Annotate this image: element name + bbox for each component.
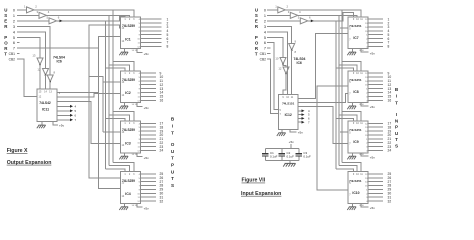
wire A2 tap to IC8 (right) [336, 118, 354, 121]
wire PB4 to inverter U2B [17, 32, 46, 69]
wire bit output 30 [141, 192, 157, 194]
wire mux spare input 7 (right) [298, 121, 302, 123]
wire U8B out to U8C [283, 64, 286, 67]
power +5v IC4 [137, 203, 142, 207]
arrow on buffered PB2 [60, 19, 63, 22]
arrow on buffered PB2 (right) [311, 19, 314, 22]
wire A1 tap to IC2 [109, 65, 130, 71]
wire bit output 1 [141, 18, 162, 20]
wire PB2 to buffer (right) [267, 20, 301, 22]
svg-text:+5v: +5v [144, 106, 150, 110]
svg-text:4: 4 [13, 30, 15, 34]
svg-text:7: 7 [75, 118, 77, 122]
svg-text:1: 1 [124, 173, 126, 176]
svg-text:10: 10 [275, 57, 279, 61]
svg-text:3: 3 [133, 18, 135, 21]
wire bit output 24 [141, 149, 157, 151]
svg-text:1: 1 [24, 5, 26, 9]
svg-text:O: O [4, 40, 8, 45]
svg-text:16: 16 [160, 98, 164, 102]
wire A1 tap to IC7 (right) [339, 65, 357, 71]
capacitor C2 0.1uF [281, 148, 283, 153]
wire bit output 10 [141, 76, 157, 78]
wire net A0 bus drop (right) [341, 10, 343, 162]
svg-text:6: 6 [309, 16, 311, 20]
svg-text:14 15: 14 15 [132, 205, 138, 207]
svg-text:74LS42: 74LS42 [39, 101, 51, 105]
svg-text:I: I [172, 123, 173, 128]
wire bit output 23 [141, 146, 157, 148]
wire PB1 to buffer [17, 14, 39, 16]
wire A2 tap to IC4 [106, 169, 126, 172]
wire A0 tap to IC4 [113, 162, 134, 171]
capacitor C3 0.1uF [298, 148, 300, 153]
svg-text:S: S [171, 183, 174, 188]
svg-text:Figure X: Figure X [7, 148, 28, 154]
wire A1 tap to IC9 (right) [339, 166, 357, 172]
svg-text:1: 1 [124, 18, 126, 21]
wire bit input 29 (right) [368, 188, 383, 190]
capacitor C1 0.1uF [264, 148, 266, 153]
ground IC3 [124, 153, 126, 156]
wire PB5 to inverter U2A [17, 37, 40, 58]
wire CB1 stub (right) [267, 53, 271, 55]
svg-text:9: 9 [353, 122, 355, 125]
wire bit input 21 (right) [368, 138, 383, 140]
svg-text:B: B [171, 116, 175, 121]
wire data tap to IC3 [103, 131, 121, 133]
wire output stub IC7 [340, 27, 348, 29]
wire bit input 18 (right) [368, 126, 383, 128]
buffer U7C [300, 18, 308, 24]
inverter U8A [289, 44, 295, 51]
svg-text:2: 2 [35, 5, 37, 9]
power +5v decoder [53, 122, 58, 125]
svg-text:7: 7 [13, 47, 15, 51]
svg-text:Output Expansion: Output Expansion [7, 160, 52, 166]
wire bit output 22 [141, 142, 157, 144]
svg-text:7: 7 [349, 193, 351, 196]
wire bit input 22 (right) [368, 142, 383, 144]
svg-text:3: 3 [133, 122, 135, 125]
svg-text:5: 5 [298, 16, 300, 20]
wire A0 tap to IC2 [113, 62, 134, 71]
wire bit input 27 (right) [368, 181, 383, 183]
wire net A2 [57, 16, 126, 21]
wire A0 tap to IC8 (right) [342, 112, 361, 121]
svg-text:CB1: CB1 [260, 52, 267, 56]
svg-text:11: 11 [291, 96, 294, 99]
svg-text:74LS251: 74LS251 [349, 179, 362, 183]
wire bit output 2 [141, 22, 162, 24]
wire PB3 to inverter U8A (right) [267, 26, 292, 43]
wire bit output 12 [141, 84, 157, 86]
svg-text:2: 2 [129, 72, 131, 75]
wire net A0 [34, 10, 134, 17]
svg-text:9: 9 [353, 18, 355, 21]
wire bit output 29 [141, 188, 157, 190]
svg-text:IC3: IC3 [125, 141, 131, 145]
multiplexer IC9 74LS251 [348, 121, 368, 153]
ground decoder [41, 122, 43, 126]
power +5v IC7 [361, 49, 369, 52]
ground IC7 [352, 49, 354, 52]
wire bit input 12 (right) [368, 84, 383, 86]
svg-text:S: S [255, 13, 258, 18]
svg-text:24: 24 [160, 149, 164, 153]
wire bit output 11 [141, 80, 157, 82]
svg-text:10: 10 [356, 72, 359, 75]
svg-text:3: 3 [133, 72, 135, 75]
wire PB7 stub (right) [267, 47, 271, 49]
wire net A1 (right) [298, 15, 357, 17]
wire net A1 [47, 15, 130, 17]
svg-text:T: T [171, 156, 174, 161]
svg-text:74LS251: 74LS251 [349, 24, 362, 28]
svg-text:4: 4 [48, 10, 50, 14]
wire A0 tap to IC7 (right) [342, 62, 361, 71]
svg-text:7: 7 [280, 113, 282, 116]
wire bit output 6 [141, 38, 162, 40]
wire bit input 5 (right) [368, 34, 383, 36]
wire bit output 21 [141, 138, 157, 140]
svg-text:2: 2 [129, 122, 131, 125]
svg-text:6: 6 [13, 41, 15, 45]
svg-text:IC12: IC12 [285, 113, 292, 117]
svg-text:8: 8 [388, 45, 390, 49]
svg-text:9: 9 [353, 173, 355, 176]
svg-text:14 15: 14 15 [132, 50, 138, 52]
svg-text:+5v: +5v [298, 131, 304, 135]
svg-text:R: R [255, 24, 259, 29]
svg-text:Input Expansion: Input Expansion [241, 191, 281, 197]
wire net A2 bus drop (right) [335, 21, 337, 169]
buffer U7A [278, 7, 286, 13]
wire bit output 3 [141, 26, 162, 28]
junction dot U2C output [49, 81, 51, 83]
inverter U2A [37, 58, 43, 65]
wire bit input 13 (right) [368, 88, 383, 90]
svg-text:9: 9 [282, 96, 284, 99]
latch IC4 74LS259 [121, 172, 141, 204]
junction dot U8A output [291, 50, 293, 52]
wire bit output 13 [141, 88, 157, 90]
svg-text:0.1uF: 0.1uF [303, 155, 311, 159]
wire bit input 4 (right) [368, 30, 383, 32]
wire bit output 31 [141, 196, 157, 198]
svg-text:3: 3 [133, 173, 135, 176]
wire decoder Y1 to IC2 enable [57, 93, 121, 97]
wire output stub IC9 [340, 131, 348, 133]
svg-text:U: U [255, 8, 258, 13]
wire A2 tap to IC2 [106, 68, 126, 71]
svg-text:IC10: IC10 [352, 191, 359, 195]
junction dot U2B output [45, 75, 47, 77]
wire bit output 14 [141, 92, 157, 94]
wire PB4 to mux pin 10 (right) [267, 32, 288, 95]
wire mux to IC8 enable (right) [298, 93, 348, 102]
svg-text:CB2: CB2 [9, 58, 16, 62]
svg-text:7: 7 [349, 93, 351, 96]
wire bit input 26 (right) [368, 177, 383, 179]
wire bit output 9 [141, 72, 157, 74]
wire bit output 19 [141, 130, 157, 132]
wire bit output 7 [141, 41, 162, 43]
wire bit input 28 (right) [368, 185, 383, 187]
svg-text:5: 5 [13, 36, 15, 40]
svg-text:+5v: +5v [370, 105, 376, 109]
svg-text:8: 8 [295, 50, 297, 54]
buffer U1A [27, 7, 35, 13]
svg-text:I: I [396, 94, 397, 99]
svg-text:5: 5 [280, 109, 282, 112]
svg-text:IC6: IC6 [297, 61, 302, 65]
wire PB6 stub [17, 42, 20, 44]
buffer U1B [39, 12, 47, 18]
svg-text:24: 24 [388, 149, 392, 153]
wire bit output 15 [141, 95, 157, 97]
power +5v IC10 [361, 203, 369, 206]
wire bit output 20 [141, 134, 157, 136]
wire CB2 to mux strobe (right) [267, 59, 279, 113]
wire data bus loop (IC1 pin 13 to IC4) [89, 25, 121, 178]
svg-text:8: 8 [167, 45, 169, 49]
ground IC9 [352, 153, 354, 156]
wire bit input 6 (right) [368, 38, 383, 40]
wire U8A out to mux pin 11 [291, 50, 293, 95]
svg-text:B: B [395, 87, 399, 92]
svg-text:10: 10 [356, 18, 359, 21]
junction dot U8B output [282, 64, 284, 66]
svg-text:11: 11 [360, 173, 363, 176]
svg-text:+5v: +5v [289, 140, 295, 144]
svg-text:S: S [395, 143, 398, 148]
svg-text:U: U [4, 8, 7, 13]
svg-text:3: 3 [264, 25, 266, 29]
wire bit input 7 (right) [368, 41, 383, 43]
wire mux to IC7 enable (right) [298, 34, 348, 99]
wire data tap to IC2 [103, 81, 121, 83]
junction dot U8C output [285, 73, 287, 75]
ground IC8 [352, 103, 354, 106]
svg-text:U: U [395, 131, 399, 136]
svg-text:32: 32 [388, 199, 392, 203]
wire bit output 18 [141, 126, 157, 128]
svg-text:3: 3 [36, 10, 38, 14]
svg-text:10: 10 [356, 122, 359, 125]
svg-text:3: 3 [288, 10, 290, 14]
wire cap top rail [265, 147, 298, 149]
svg-text:R: R [255, 46, 259, 51]
svg-text:2: 2 [264, 19, 266, 23]
svg-text:IC1: IC1 [125, 37, 131, 41]
svg-text:1: 1 [275, 5, 277, 9]
power +5v IC3 [137, 153, 142, 157]
wire A1 tap to IC8 (right) [339, 115, 357, 121]
svg-text:IC8: IC8 [353, 90, 358, 94]
svg-text:T: T [171, 130, 174, 135]
svg-text:5: 5 [264, 36, 266, 40]
svg-text:7: 7 [264, 47, 266, 51]
wire PB5 to inverter U8B (right) [267, 37, 283, 57]
wire PB3 to inverter U2C [17, 26, 50, 75]
wire A2 tap to IC7 (right) [336, 68, 354, 71]
wire CB2 to decoder enable [17, 59, 37, 96]
svg-text:P: P [171, 162, 174, 167]
svg-text:E: E [255, 19, 258, 24]
svg-text:O: O [171, 142, 175, 147]
wire A2 tap to IC3 [106, 118, 126, 121]
wire A0 tap to IC3 [113, 112, 134, 121]
svg-text:U: U [171, 149, 175, 154]
svg-text:+5v: +5v [144, 156, 150, 160]
wire bit input 32 (right) [368, 200, 383, 202]
wire net A2 (right) [308, 13, 354, 21]
wire bit input 14 (right) [368, 92, 383, 94]
ground IC10 [352, 203, 354, 206]
svg-text:T: T [4, 51, 7, 56]
wire bit input 23 (right) [368, 146, 383, 148]
wire bit output 16 [141, 99, 157, 101]
ground IC4 [124, 203, 126, 206]
svg-text:IC7: IC7 [353, 36, 358, 40]
svg-text:5: 5 [75, 109, 77, 113]
svg-text:IC6: IC6 [57, 59, 62, 63]
wire A1 tap to IC4 [109, 166, 130, 172]
svg-text:6: 6 [58, 16, 60, 20]
wire decoder spare output 7 [57, 119, 70, 121]
svg-text:4: 4 [264, 30, 266, 34]
wire bit output 17 [141, 122, 157, 124]
svg-text:+5v: +5v [144, 207, 150, 211]
svg-text:IC9: IC9 [353, 140, 358, 144]
svg-text:16: 16 [388, 98, 392, 102]
wire bit output 4 [141, 30, 162, 32]
svg-text:O: O [255, 40, 259, 45]
decoder IC11 74LS42 [37, 89, 57, 122]
svg-text:4: 4 [299, 10, 301, 14]
wire U2B out to decoder pin 14 [45, 75, 47, 89]
wire bit input 24 (right) [368, 149, 383, 151]
svg-text:7: 7 [349, 143, 351, 146]
wire PB2 to buffer [17, 20, 49, 22]
wire PB0 to buffer [17, 9, 27, 11]
wire bit output 25 [141, 173, 157, 175]
wire bit input 20 (right) [368, 134, 383, 136]
wire mux to IC9 enable (right) [298, 106, 348, 143]
svg-text:1: 1 [13, 14, 15, 18]
wire net A0 bus drop [112, 10, 114, 162]
svg-text:6: 6 [75, 113, 77, 117]
wire output bus IC8 to IC10 (right) [317, 86, 348, 190]
svg-text:+5v: +5v [370, 155, 376, 159]
svg-text:CB2: CB2 [260, 58, 267, 62]
power +5v IC2 [137, 103, 142, 107]
wire bit input 17 (right) [368, 122, 383, 124]
wire PB1 to buffer (right) [267, 14, 291, 16]
svg-text:+5v: +5v [59, 123, 65, 127]
svg-text:74LS251: 74LS251 [349, 78, 362, 82]
svg-text:14 15: 14 15 [132, 104, 138, 106]
wire CB1 stub [17, 53, 20, 55]
wire bit input 9 (right) [368, 72, 383, 74]
svg-text:0: 0 [13, 8, 15, 12]
svg-text:2: 2 [129, 18, 131, 21]
wire U2C out to decoder pin 13 [49, 82, 51, 90]
wire U2A out to decoder pin 15 [39, 65, 41, 90]
svg-text:T: T [255, 51, 258, 56]
svg-text:7: 7 [308, 120, 310, 124]
wire PB0 to buffer (right) [267, 9, 278, 11]
wire decoder spare output 4 [57, 105, 70, 107]
power +5v IC8 [361, 103, 369, 106]
power +5v IC9 [361, 153, 369, 156]
wire net A2 bus drop [105, 21, 107, 169]
svg-text:+5v: +5v [144, 52, 150, 56]
wire PB7 to IC1 enable net [17, 47, 99, 49]
svg-text:Figure VII: Figure VII [242, 178, 266, 184]
svg-text:74LS251: 74LS251 [349, 128, 362, 132]
svg-text:9: 9 [353, 72, 355, 75]
wire decoder spare output 6 [57, 114, 70, 116]
svg-text:13: 13 [49, 90, 52, 93]
buffer U7B [290, 12, 298, 18]
svg-text:1: 1 [264, 14, 266, 18]
wire A2 tap to IC9 (right) [336, 169, 354, 172]
svg-text:7: 7 [349, 39, 351, 42]
inverter U2B [43, 69, 49, 76]
ground caps [289, 160, 291, 163]
latch IC1 74LS259 [121, 17, 141, 49]
svg-text:0: 0 [264, 8, 266, 12]
svg-text:5: 5 [46, 16, 48, 20]
inverter U8C [283, 67, 289, 74]
ground IC1 [124, 49, 126, 52]
wire A0 tap to IC9 (right) [342, 162, 361, 171]
wire decoder Y0 output [57, 92, 99, 94]
ground mux [281, 130, 283, 133]
wire bit output 32 [141, 200, 157, 202]
wire mux spare input 5 (right) [298, 114, 302, 116]
svg-text:I: I [396, 112, 397, 117]
wire bit input 11 (right) [368, 80, 383, 82]
svg-text:E: E [4, 19, 7, 24]
svg-text:CB1: CB1 [9, 52, 16, 56]
svg-text:+5v: +5v [370, 51, 376, 55]
svg-text:32: 32 [160, 199, 164, 203]
svg-text:2: 2 [287, 5, 289, 9]
svg-text:U: U [171, 169, 175, 174]
svg-text:10: 10 [286, 96, 289, 99]
wire bit output 28 [141, 185, 157, 187]
multiplexer IC12 74LS151 [279, 95, 299, 130]
svg-text:0.1uF: 0.1uF [270, 155, 278, 159]
wire mux spare input 4 (right) [298, 110, 302, 112]
svg-text:R: R [4, 24, 8, 29]
svg-text:R: R [4, 46, 8, 51]
svg-text:IC11: IC11 [42, 107, 49, 111]
svg-text:13: 13 [32, 54, 36, 58]
wire decoder Y0 to IC1/IC4 enable riser [99, 36, 121, 188]
wire bit input 8 (right) [368, 45, 383, 47]
wire bit input 31 (right) [368, 196, 383, 198]
wire decoder spare output 5 [57, 110, 70, 112]
svg-text:74LS151: 74LS151 [282, 102, 295, 106]
wire bit input 2 (right) [368, 22, 383, 24]
buffer U1C [49, 18, 57, 24]
svg-text:11: 11 [360, 18, 363, 21]
wire cap bottom rail [265, 159, 298, 161]
